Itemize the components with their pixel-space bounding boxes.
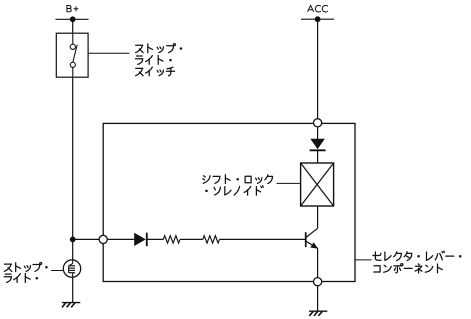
diode D2 (cathode down) — [310, 139, 326, 151]
diode D1 (pointing right) — [134, 233, 147, 247]
wire R1 to R2 — [180, 238, 203, 240]
node B+ terminal bar — [56, 16, 89, 22]
shift lock solenoid L1 — [301, 163, 334, 206]
wire diode to solenoid — [317, 150, 319, 163]
wire emitter to bottom connector — [317, 248, 319, 277]
label: stop light switch (3 lines katakana) — [136, 44, 183, 76]
connector node (left, stop light signal) — [99, 235, 107, 243]
wire junction to connector circle — [73, 238, 100, 240]
label leader: stop light switch — [88, 52, 129, 54]
label ACC — [308, 5, 328, 12]
ground (chassis) left — [62, 303, 80, 308]
label leader: stop light — [51, 270, 63, 272]
label: selector lever component (2 lines katakana) — [373, 251, 462, 273]
connector node (top, ACC input) — [314, 119, 322, 127]
stop light bulb LP — [63, 260, 80, 277]
selector lever component box — [103, 123, 355, 281]
node ACC terminal bar — [301, 16, 334, 22]
resistor R1 — [163, 236, 180, 243]
junction node (dot) — [70, 237, 76, 243]
wire B+ to stop light switch — [72, 19, 74, 33]
stop light switch S1 — [56, 33, 88, 77]
wire R2 to transistor base — [220, 238, 306, 240]
label: shift lock solenoid (2 lines katakana) — [203, 175, 273, 195]
wire solenoid to transistor collector — [317, 206, 319, 228]
resistor R2 — [203, 236, 220, 243]
wire D1 to resistor R1 — [147, 238, 164, 240]
label B+ — [67, 6, 79, 12]
wire connector to diode D1 — [107, 238, 134, 240]
label leader: shift lock solenoid — [277, 182, 301, 184]
connector node (bottom, ground) — [314, 278, 322, 286]
label leader: selector lever component — [355, 259, 372, 261]
wire switch to junction — [72, 77, 74, 239]
label: stop light (2 lines katakana) — [4, 262, 47, 282]
wire junction down to stop light bulb — [72, 239, 74, 259]
wire ACC down to component connector — [317, 19, 319, 118]
ground (chassis) right — [309, 311, 327, 316]
wire bulb to ground — [72, 277, 74, 302]
wire bottom connector to ground — [317, 286, 319, 311]
wire connector to diode D2 — [317, 127, 319, 139]
transistor Q1 (NPN) — [306, 228, 318, 248]
